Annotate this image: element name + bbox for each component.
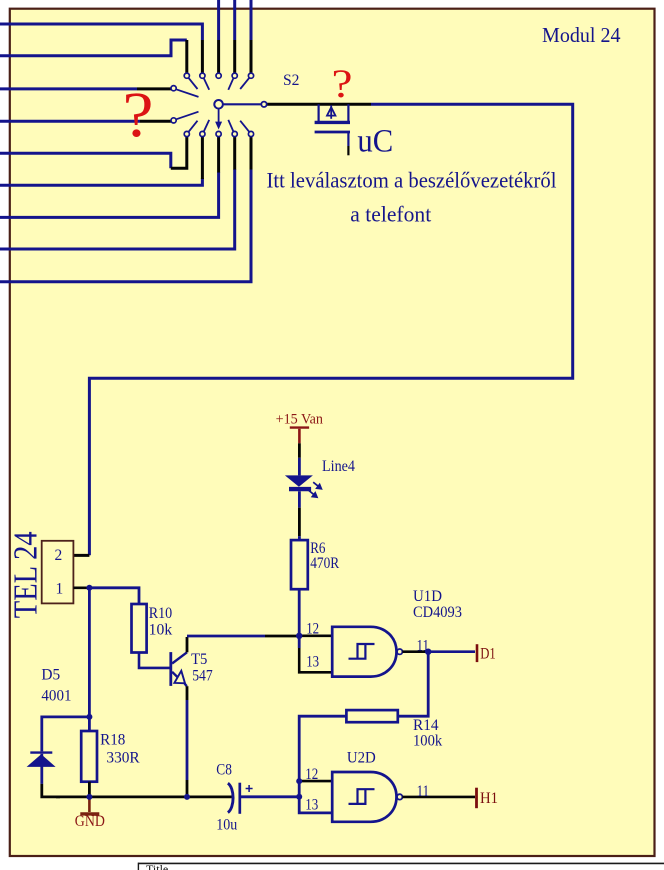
svg-text:H1: H1	[480, 790, 498, 807]
svg-text:Modul 24: Modul 24	[542, 23, 621, 47]
svg-text:1: 1	[56, 580, 64, 597]
svg-text:2: 2	[55, 547, 63, 564]
svg-text:R18: R18	[100, 732, 126, 749]
svg-text:a telefont: a telefont	[350, 201, 431, 226]
svg-text:Itt leválasztom a beszélővezet: Itt leválasztom a beszélővezetékről	[267, 168, 557, 193]
svg-text:TEL 24: TEL 24	[7, 531, 44, 618]
svg-text:13: 13	[306, 653, 319, 670]
svg-text:R10: R10	[149, 605, 173, 622]
svg-text:11: 11	[417, 783, 430, 800]
svg-text:11: 11	[417, 637, 430, 654]
svg-text:?: ?	[123, 79, 154, 151]
svg-text:C8: C8	[216, 762, 232, 779]
svg-text:Title: Title	[146, 862, 168, 870]
svg-text:U1D: U1D	[413, 588, 442, 605]
svg-text:D1: D1	[480, 645, 496, 662]
svg-text:330R: 330R	[106, 750, 140, 767]
svg-text:100k: 100k	[413, 732, 442, 749]
svg-text:T5: T5	[191, 651, 208, 668]
svg-text:13: 13	[305, 797, 318, 814]
svg-text:+15 Van: +15 Van	[276, 412, 324, 428]
svg-text:547: 547	[192, 667, 213, 684]
svg-text:U2D: U2D	[347, 750, 376, 767]
svg-text:10u: 10u	[216, 817, 237, 834]
svg-text:?: ?	[332, 61, 353, 106]
svg-text:GND: GND	[75, 813, 105, 830]
svg-text:uC: uC	[357, 123, 393, 159]
svg-text:S2: S2	[283, 72, 300, 89]
svg-text:CD4093: CD4093	[413, 604, 462, 621]
svg-text:12: 12	[305, 766, 318, 783]
svg-text:Line4: Line4	[322, 458, 355, 475]
svg-text:470R: 470R	[310, 555, 340, 572]
svg-text:12: 12	[306, 620, 319, 637]
svg-text:4001: 4001	[41, 687, 71, 704]
svg-text:10k: 10k	[149, 621, 173, 638]
svg-text:D5: D5	[41, 667, 60, 684]
